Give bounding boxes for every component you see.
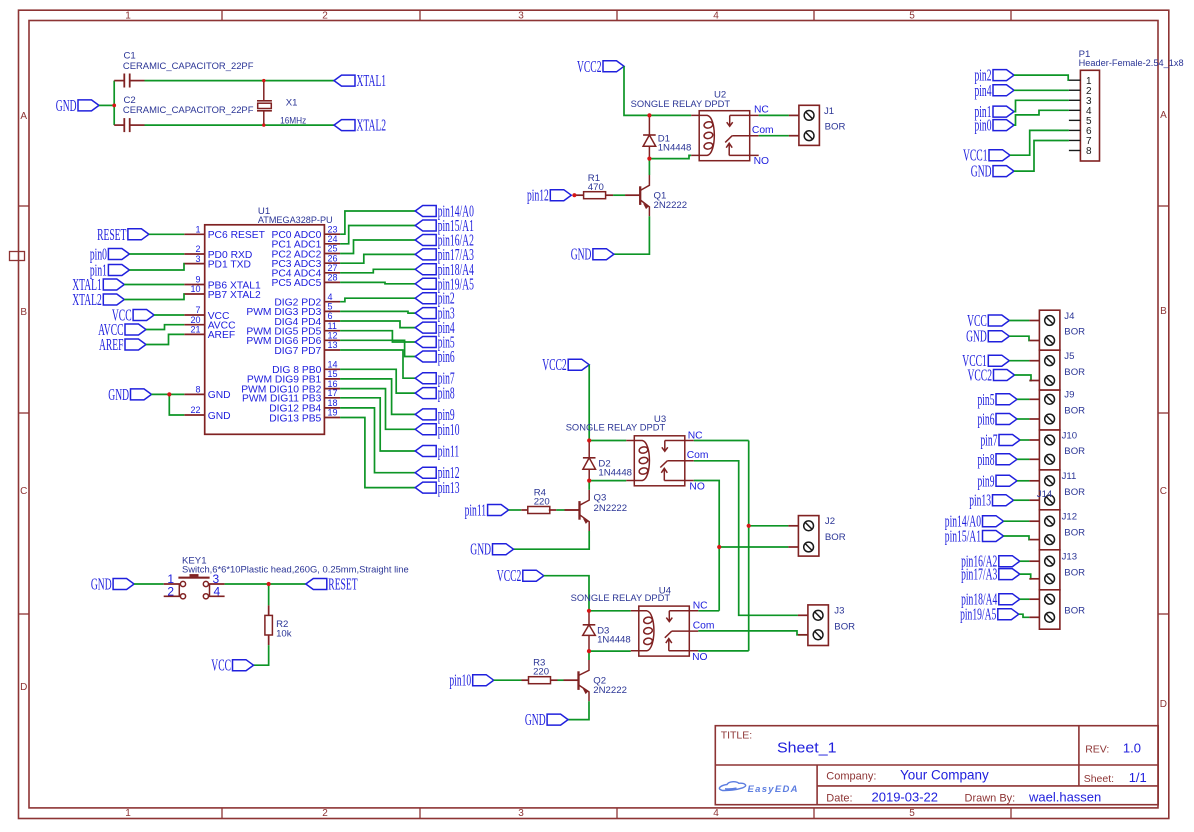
- svg-text:pin10: pin10: [438, 420, 460, 439]
- svg-text:TITLE:: TITLE:: [721, 730, 753, 742]
- svg-text:Drawn By:: Drawn By:: [965, 793, 1016, 805]
- svg-text:Date:: Date:: [826, 793, 852, 805]
- resistor R2 body: [265, 615, 273, 635]
- svg-text:4: 4: [328, 292, 333, 302]
- wire D1 to Q1 collector: [648, 159, 650, 175]
- connector J9: [1029, 390, 1060, 430]
- wire D1 to U2 coil2: [649, 155, 691, 158]
- svg-text:BOR: BOR: [834, 622, 855, 633]
- svg-text:D: D: [20, 682, 27, 693]
- svg-text:1N4448: 1N4448: [658, 142, 692, 153]
- port pin18/A4 (terminal column): [961, 590, 1020, 609]
- pin 8 GND of U1: [184, 385, 230, 402]
- wire D3 to Q2 collector: [588, 651, 590, 660]
- frame zone letters left: [20, 111, 27, 693]
- svg-text:1N4448: 1N4448: [598, 467, 632, 478]
- svg-text:GND: GND: [525, 710, 546, 729]
- pin 20 AVCC of U1: [184, 315, 236, 332]
- svg-text:14: 14: [328, 360, 338, 370]
- frame zone letters right: [1160, 110, 1167, 710]
- wire U2 Com to J1: [759, 135, 789, 137]
- connector P1 Header-Female 1x8: [1069, 70, 1100, 161]
- port pin4 (U1 right): [415, 318, 455, 337]
- wire U1 to pin7: [340, 350, 415, 378]
- wire D3 to U4 coil2: [589, 650, 631, 652]
- port VCC (R2): [211, 656, 253, 675]
- wire pin7 to terminal: [1020, 439, 1029, 441]
- svg-text:XTAL1: XTAL1: [357, 71, 387, 90]
- port VCC2 (U4): [497, 566, 544, 585]
- wire pin5 to terminal: [1017, 398, 1029, 400]
- wire U3 Com to J3 pin1: [694, 461, 798, 616]
- wire U1 to pin12: [340, 408, 415, 473]
- wire U1 to pin10: [340, 389, 415, 430]
- svg-text:Q3: Q3: [594, 493, 607, 504]
- junction J2 bottom: [717, 545, 721, 549]
- wire GND to junction: [99, 104, 114, 106]
- svg-text:BOR: BOR: [1064, 487, 1085, 498]
- port pin5 (terminal column): [978, 390, 1018, 409]
- wire pin14/A0 to terminal: [1004, 520, 1030, 522]
- pin 7 VCC of U1: [184, 305, 230, 322]
- svg-text:22: 22: [190, 405, 200, 415]
- svg-text:D: D: [1160, 699, 1167, 710]
- pin 16 PWM DIG10 PB2 of U1: [241, 379, 340, 396]
- svg-text:NC: NC: [754, 105, 769, 116]
- resistor R3: [522, 677, 558, 684]
- svg-text:PC5 ADC5: PC5 ADC5: [272, 278, 322, 289]
- svg-text:BOR: BOR: [1064, 367, 1085, 378]
- capacitor C2: [114, 118, 144, 132]
- svg-text:pin6: pin6: [978, 410, 995, 429]
- svg-text:Com: Com: [687, 450, 709, 461]
- pin 5 PWM DIG3 PD3 of U1: [246, 302, 340, 319]
- wire VCC to U1 pin7: [154, 314, 184, 316]
- wire U4 NO to vertical: [698, 650, 748, 652]
- pin 27 PC4 ADC4 of U1: [272, 263, 341, 280]
- wire pin8 to terminal: [1017, 458, 1029, 460]
- svg-text:pin5: pin5: [978, 390, 995, 409]
- svg-text:pin19/A5: pin19/A5: [960, 605, 996, 624]
- svg-text:4: 4: [713, 10, 719, 21]
- svg-text:20: 20: [190, 315, 200, 325]
- op-amp U1 ATMEGA328P-PU body: [205, 225, 325, 434]
- svg-text:19: 19: [328, 408, 338, 418]
- port pin5 (U1 right): [415, 333, 455, 352]
- wire VCC2 to U4 coil: [544, 576, 631, 611]
- svg-text:1: 1: [125, 808, 131, 819]
- wire net NC vertical: [748, 441, 750, 651]
- port GND (Q2): [525, 710, 568, 729]
- wire Q2 emitter to GND: [568, 701, 589, 719]
- port GND (terminal column): [966, 327, 1009, 346]
- port pin18/A4 (U1 right): [415, 260, 474, 279]
- svg-text:4: 4: [214, 584, 221, 598]
- pin 24 PC1 ADC1 of U1: [272, 234, 341, 251]
- svg-text:2: 2: [322, 10, 328, 21]
- port AREF: [99, 335, 146, 354]
- port pin13 (terminal column): [969, 491, 1013, 510]
- port pin2 (P1): [975, 66, 1015, 85]
- svg-text:PB7 XTAL2: PB7 XTAL2: [208, 290, 261, 301]
- svg-text:GND: GND: [971, 162, 992, 181]
- wire U1 to pin5: [340, 331, 415, 342]
- wire VCC1 to terminal: [1009, 360, 1029, 362]
- svg-text:XTAL2: XTAL2: [357, 116, 387, 135]
- pin 18 DIG12 PB4 of U1: [269, 398, 340, 415]
- port pin14/A0 (terminal column): [945, 512, 1004, 531]
- svg-text:BOR: BOR: [825, 122, 846, 133]
- connector J12: [1029, 510, 1060, 550]
- svg-text:18: 18: [328, 398, 338, 408]
- frame zone numbers top: [125, 10, 915, 21]
- svg-text:2: 2: [322, 808, 328, 819]
- svg-text:GND: GND: [966, 327, 987, 346]
- port pin0: [90, 245, 129, 264]
- svg-text:XTAL2: XTAL2: [72, 290, 102, 309]
- EasyEDA logo: [719, 782, 798, 795]
- junction J2 top: [747, 524, 751, 528]
- svg-text:pin12: pin12: [527, 186, 549, 205]
- svg-text:EasyEDA: EasyEDA: [748, 784, 799, 795]
- transistor Q2 2N2222: [564, 660, 590, 701]
- wire U1 to pin16/A2: [340, 240, 415, 254]
- wire R3 to Q2 base: [558, 679, 564, 681]
- pin 17 PWM DIG11 PB3 of U1: [242, 388, 340, 405]
- svg-text:RESET: RESET: [328, 575, 357, 594]
- svg-text:J3: J3: [834, 606, 844, 617]
- junction D2 bottom: [587, 479, 591, 483]
- resistor R2: [265, 605, 273, 645]
- resistor R4 body: [528, 507, 550, 514]
- junction D3 top: [587, 609, 591, 613]
- wire U1 to pin6: [340, 340, 415, 356]
- svg-text:AREF: AREF: [208, 330, 235, 341]
- svg-text:NO: NO: [692, 652, 707, 663]
- wire U1 to pin4: [340, 321, 415, 328]
- svg-text:16MHz: 16MHz: [280, 115, 306, 126]
- svg-text:GND: GND: [470, 540, 491, 559]
- svg-text:pin13: pin13: [969, 491, 991, 510]
- port GND (Q3): [470, 540, 513, 559]
- svg-text:2: 2: [167, 584, 174, 598]
- wire U1 to pin14/A0: [340, 211, 415, 234]
- connector J10: [1029, 430, 1060, 470]
- svg-text:CERAMIC_CAPACITOR_22PF: CERAMIC_CAPACITOR_22PF: [123, 61, 254, 72]
- fold tab mark left border: [10, 252, 25, 261]
- svg-text:pin9: pin9: [978, 471, 995, 490]
- svg-text:Com: Com: [752, 125, 774, 136]
- title block: [715, 726, 1158, 805]
- svg-text:pin15/A1: pin15/A1: [945, 527, 981, 546]
- connector J13: [1029, 550, 1060, 590]
- wire pin0 to P1 pin4: [1014, 110, 1069, 125]
- pin 14 DIG 8 PB0 of U1: [272, 360, 340, 377]
- svg-text:X1: X1: [286, 98, 298, 109]
- wire VCC2 to terminal: [1015, 375, 1032, 381]
- port GND (KEY1): [91, 575, 134, 594]
- svg-text:VCC2: VCC2: [968, 366, 993, 385]
- svg-text:SONGLE RELAY DPDT: SONGLE RELAY DPDT: [571, 593, 671, 604]
- svg-text:PC6 RESET: PC6 RESET: [208, 230, 266, 241]
- svg-text:Header-Female-2.54_1x8: Header-Female-2.54_1x8: [1079, 58, 1184, 69]
- wire R4 to Q3 base: [556, 509, 564, 511]
- wire C1 to XTAL1: [145, 80, 335, 82]
- resistor R3 body: [529, 677, 551, 684]
- wire U4 NC to vertical: [698, 610, 719, 612]
- pin 19 DIG13 PB5 of U1: [269, 408, 340, 425]
- svg-text:1: 1: [125, 10, 131, 21]
- svg-text:C: C: [20, 486, 27, 497]
- port GND (Q1): [571, 245, 614, 264]
- svg-text:A: A: [1160, 110, 1167, 121]
- wire U1 to pin17/A3: [340, 254, 415, 263]
- junction RESET R2: [267, 582, 271, 586]
- svg-text:AREF: AREF: [99, 335, 124, 354]
- svg-text:11: 11: [328, 321, 337, 331]
- relay U3 SONGLE RELAY DPDT: [626, 436, 694, 486]
- svg-text:J4: J4: [1064, 311, 1075, 322]
- svg-text:7: 7: [195, 305, 200, 315]
- wire U4 Com to J3 pin2: [698, 631, 808, 635]
- svg-text:Company:: Company:: [826, 770, 876, 782]
- port GND (crystal): [56, 96, 99, 115]
- diode D3 1N4448: [583, 611, 596, 651]
- svg-text:5: 5: [909, 10, 915, 21]
- wire pin10 to R3: [494, 679, 522, 681]
- wire pin19/A5 to terminal: [1019, 614, 1030, 617]
- wire AREF to U1 pin21: [146, 334, 184, 344]
- svg-text:J14: J14: [1037, 489, 1053, 500]
- connector J4: [1029, 310, 1060, 350]
- connector J5: [1029, 350, 1060, 390]
- svg-text:Sheet_1: Sheet_1: [777, 741, 837, 757]
- port VCC (terminal column): [967, 311, 1009, 330]
- port XTAL2 (crystal): [334, 116, 386, 135]
- svg-text:2N2222: 2N2222: [594, 503, 628, 514]
- resistor R1: [574, 192, 613, 199]
- svg-text:wael.hassen: wael.hassen: [1028, 790, 1101, 805]
- svg-text:VCC: VCC: [211, 656, 231, 675]
- wire GND to U1 pin8: [152, 393, 185, 395]
- svg-text:2019-03-22: 2019-03-22: [872, 790, 939, 805]
- svg-text:6: 6: [328, 311, 333, 321]
- svg-text:pin4: pin4: [975, 81, 992, 100]
- svg-text:3: 3: [195, 254, 200, 264]
- svg-text:10k: 10k: [276, 629, 292, 640]
- svg-text:J12: J12: [1062, 512, 1077, 523]
- connector J14: [1029, 590, 1060, 629]
- wire pin6 to terminal: [1017, 418, 1029, 420]
- relay U2 SONGLE RELAY DPDT: [691, 111, 759, 161]
- junction D1 bottom: [647, 157, 651, 161]
- connector J11: [1029, 470, 1060, 510]
- svg-text:8: 8: [1086, 146, 1092, 157]
- svg-text:BOR: BOR: [1064, 567, 1085, 578]
- resistor R4: [521, 507, 556, 514]
- svg-text:VCC2: VCC2: [577, 57, 602, 76]
- svg-text:DIG7 PD7: DIG7 PD7: [274, 346, 321, 357]
- svg-text:PD1 TXD: PD1 TXD: [208, 259, 251, 270]
- wire VCC2 to U3 coil: [589, 365, 626, 441]
- svg-text:23: 23: [328, 224, 338, 234]
- port VCC1 (terminal column): [962, 351, 1009, 370]
- svg-text:pin0: pin0: [975, 116, 992, 135]
- port VCC2 (U2): [577, 57, 624, 76]
- wire XTAL1 to U1 pin9: [124, 284, 184, 286]
- wire D2 to Q3 collector: [588, 481, 590, 490]
- port pin11 (U3): [465, 501, 509, 520]
- wire VCC1 to P1 pin6: [1010, 130, 1069, 155]
- svg-text:J10: J10: [1062, 430, 1077, 441]
- wire pin2 to P1 pin1: [1014, 75, 1069, 80]
- wire to J2 pin1: [749, 525, 789, 527]
- port pin10 (U4): [449, 671, 493, 690]
- svg-text:pin11: pin11: [438, 442, 460, 461]
- wire VCC2 to U2 coil: [624, 66, 691, 115]
- wire U1 to pin11: [340, 398, 415, 451]
- port RESET: [97, 225, 149, 244]
- port XTAL1 (crystal): [334, 71, 386, 90]
- pin 15 PWM DIG9 PB1 of U1: [247, 369, 340, 386]
- port pin9 (U1 right): [415, 405, 455, 424]
- svg-text:NO: NO: [689, 482, 704, 493]
- port pin13 (U1 right): [415, 478, 459, 497]
- diode D2 1N4448: [583, 441, 596, 481]
- pin 6 DIG4 PD4 of U1: [274, 311, 340, 328]
- svg-text:28: 28: [328, 273, 338, 283]
- svg-text:BOR: BOR: [1064, 527, 1085, 538]
- svg-text:B: B: [1160, 306, 1167, 317]
- port VCC2 (terminal column): [968, 366, 1015, 385]
- svg-text:ATMEGA328P-PU: ATMEGA328P-PU: [258, 215, 333, 226]
- svg-text:VCC2: VCC2: [497, 566, 522, 585]
- svg-text:pin8: pin8: [978, 450, 995, 469]
- svg-text:J5: J5: [1064, 351, 1074, 362]
- wire Q1 emitter to GND: [614, 216, 650, 254]
- svg-text:pin11: pin11: [465, 501, 487, 520]
- wire RESET to U1 pin1: [149, 233, 184, 235]
- svg-text:GND: GND: [208, 390, 231, 401]
- svg-text:BOR: BOR: [1064, 446, 1085, 457]
- port pin0 (P1): [975, 116, 1015, 135]
- wire U1 to pin8: [340, 369, 415, 393]
- svg-text:26: 26: [328, 253, 338, 263]
- svg-text:C: C: [1160, 486, 1167, 497]
- svg-text:J1: J1: [824, 106, 834, 117]
- port pin10 (U1 right): [415, 420, 459, 439]
- port pin12 (U2): [527, 186, 571, 205]
- wire pin18/A4 to terminal: [1020, 598, 1030, 600]
- port pin6 (terminal column): [978, 410, 1018, 429]
- port pin12 (U1 right): [415, 463, 459, 482]
- svg-text:1N4448: 1N4448: [597, 634, 631, 645]
- svg-text:BOR: BOR: [1064, 327, 1085, 338]
- svg-text:GND: GND: [108, 385, 129, 404]
- wire Q3 emitter to GND: [514, 531, 590, 549]
- svg-text:GND: GND: [56, 96, 77, 115]
- port XTAL1: [72, 275, 124, 294]
- port pin15/A1 (U1 right): [415, 216, 474, 235]
- svg-text:CERAMIC_CAPACITOR_22PF: CERAMIC_CAPACITOR_22PF: [123, 105, 254, 116]
- port pin4 (P1): [975, 81, 1015, 100]
- svg-text:2N2222: 2N2222: [654, 200, 688, 211]
- svg-text:J9: J9: [1064, 390, 1074, 401]
- wire pin17/A3 to terminal: [1020, 574, 1031, 579]
- svg-text:9: 9: [195, 275, 200, 285]
- port pin15/A1 (terminal column): [945, 527, 1004, 546]
- port pin11 (U1 right): [415, 442, 459, 461]
- pin 3 PD1 TXD of U1: [184, 254, 251, 271]
- pin 10 PB7 XTAL2 of U1: [184, 284, 261, 301]
- port pin1 (P1): [975, 102, 1015, 121]
- wire U1 to pin9: [340, 379, 415, 415]
- svg-text:BOR: BOR: [825, 532, 846, 543]
- switch KEY1: [164, 574, 225, 599]
- pin 1 PC6 RESET of U1: [184, 225, 265, 242]
- crystal X1 16MHz: [257, 81, 272, 126]
- wire D2 to U3 coil2: [589, 480, 626, 482]
- svg-text:J2: J2: [825, 516, 835, 527]
- wire U1 to pin2: [340, 298, 415, 302]
- junction X1 top: [262, 79, 265, 82]
- svg-text:5: 5: [909, 808, 915, 819]
- junction pin12 R1: [572, 193, 576, 197]
- svg-text:SONGLE RELAY DPDT: SONGLE RELAY DPDT: [631, 99, 731, 110]
- wire pin0 to U1 pin2: [129, 253, 184, 255]
- port XTAL2: [72, 290, 124, 309]
- svg-text:220: 220: [534, 496, 550, 507]
- port GND (P1): [971, 162, 1014, 181]
- svg-text:21: 21: [190, 325, 200, 335]
- svg-text:pin17/A3: pin17/A3: [961, 565, 997, 584]
- svg-text:15: 15: [328, 369, 338, 379]
- port pin6 (U1 right): [415, 347, 455, 366]
- port pin2 (U1 right): [415, 289, 455, 308]
- relay U4 SONGLE RELAY DPDT: [631, 606, 699, 656]
- svg-text:10: 10: [190, 284, 200, 294]
- junction D3 bottom: [587, 649, 591, 653]
- svg-text:NO: NO: [754, 156, 769, 167]
- wire R1 to Q1 base: [613, 194, 625, 196]
- svg-text:B: B: [20, 307, 27, 318]
- wire pin16/A2 to terminal: [1020, 560, 1030, 562]
- wire GND to U1 pin22: [169, 394, 184, 415]
- wire U1 to pin18/A4: [340, 269, 415, 273]
- svg-text:BOR: BOR: [1064, 605, 1085, 616]
- port VCC: [112, 306, 154, 325]
- port pin14/A0 (U1 right): [415, 202, 474, 221]
- frame zone numbers bottom: [125, 808, 915, 819]
- svg-text:SONGLE RELAY DPDT: SONGLE RELAY DPDT: [566, 423, 666, 434]
- capacitor C1: [114, 74, 144, 88]
- port pin16/A2 (terminal column): [961, 552, 1020, 571]
- wire U1 to pin13: [340, 418, 415, 488]
- svg-text:2: 2: [195, 244, 200, 254]
- wire junction to R2: [268, 584, 270, 605]
- wire pin11 to R4: [509, 509, 522, 511]
- wire U3 NC right: [694, 440, 749, 442]
- junction D1 top: [647, 113, 651, 117]
- wire GND to terminal: [1009, 336, 1029, 340]
- pin 12 PWM DIG6 PD6 of U1: [246, 331, 340, 348]
- port pin17/A3 (U1 right): [415, 245, 474, 264]
- resistor R1 body: [584, 192, 606, 199]
- pin 26 PC3 ADC3 of U1: [272, 253, 341, 270]
- junction X1 bottom: [262, 123, 265, 126]
- port GND (U1): [108, 385, 151, 404]
- svg-text:12: 12: [328, 331, 338, 341]
